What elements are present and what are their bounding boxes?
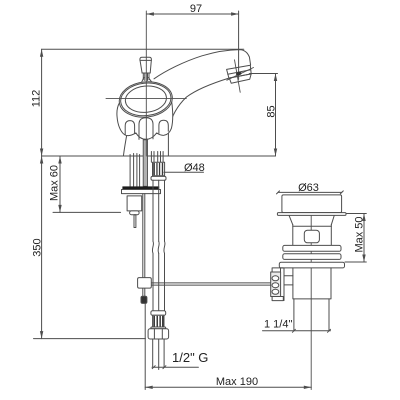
skirt arch right <box>159 120 168 133</box>
mounting nut <box>127 196 142 211</box>
right hose collar <box>151 176 166 180</box>
drain body <box>293 268 331 299</box>
faucet centerline <box>145 11 147 156</box>
tick marks 1/2G <box>152 366 166 369</box>
tick marks D63 <box>277 191 344 194</box>
pop-up rod lower <box>143 288 145 296</box>
pipe break symbol <box>152 241 165 253</box>
extension line spout outlet <box>238 11 240 79</box>
knob skirt <box>117 101 173 139</box>
drain shoulder left <box>289 216 293 225</box>
clevis bottom cap <box>272 297 283 301</box>
leader line D48 <box>164 171 204 173</box>
dimension 85 <box>274 74 277 157</box>
svg-text:350: 350 <box>32 238 44 256</box>
handle lever bottom <box>142 72 150 74</box>
rod end knob <box>141 296 147 303</box>
faucet base right edge <box>167 132 169 157</box>
right hose corrugation upper <box>153 162 165 176</box>
svg-text:1/2" G: 1/2" G <box>172 350 208 365</box>
drain tailpiece <box>294 299 329 331</box>
dimension Max 60 <box>58 156 61 212</box>
svg-text:97: 97 <box>190 3 202 15</box>
clevis slot 2 <box>272 283 279 288</box>
supply pipe <box>153 180 165 241</box>
clevis top cap <box>272 268 283 272</box>
svg-text:85: 85 <box>266 105 278 117</box>
shank tube <box>143 140 147 187</box>
knob outer ellipse <box>118 79 175 120</box>
extension line hose end <box>34 338 146 340</box>
extension line faucet top <box>42 48 244 50</box>
right hose top lines <box>151 152 163 163</box>
hex nut facets <box>154 329 162 339</box>
drain ring 3 <box>279 262 344 268</box>
handle lever cap <box>140 57 152 73</box>
dimension 112 left <box>40 49 43 156</box>
hose lower collar <box>151 311 166 316</box>
clevis slot 3 <box>272 289 279 294</box>
aerator collar <box>227 65 252 78</box>
extension line aerator <box>250 73 278 75</box>
deck line <box>42 155 276 157</box>
aerator axis mark <box>235 60 241 93</box>
mounting gasket <box>122 186 159 189</box>
svg-text:Max 50: Max 50 <box>354 216 366 252</box>
svg-text:1 1/4": 1 1/4" <box>264 319 292 331</box>
drain centerline <box>310 201 312 390</box>
drain neck divider <box>293 225 332 227</box>
drain flange lip <box>277 213 346 216</box>
drain shoulder right <box>331 216 334 225</box>
drain ring 1 <box>283 245 341 251</box>
drain knockout square <box>304 230 319 243</box>
extension line rod end <box>144 303 146 389</box>
clevis slot 1 <box>272 276 279 281</box>
pop-up rod <box>143 194 145 278</box>
clevis serrated strip <box>271 272 281 297</box>
mounting washer <box>122 190 161 194</box>
knob inner ellipse <box>124 84 168 114</box>
drain neck <box>293 225 332 246</box>
faucet base left curve <box>123 132 127 156</box>
aerator center blob <box>236 71 242 76</box>
aerator collar midline <box>228 70 251 74</box>
pipe end 1/2G <box>153 339 164 370</box>
left supply hose lines <box>130 154 140 187</box>
knob centerline <box>106 98 186 100</box>
svg-text:Max 190: Max 190 <box>216 376 258 388</box>
skirt arch center <box>139 118 153 140</box>
clevis right plate <box>281 268 285 301</box>
drain ring 2 <box>283 254 341 260</box>
dimension Max 190 <box>145 386 311 389</box>
tick marks 1 1/4 <box>292 329 330 332</box>
spout top curve <box>154 50 251 79</box>
svg-text:112: 112 <box>31 90 43 108</box>
dimension 97 top <box>146 12 238 15</box>
leader line 1/2G <box>152 366 198 368</box>
horizontal linkage rod <box>151 283 271 285</box>
handle lever band <box>140 59 152 61</box>
dimension line 1 1/4 <box>263 330 331 332</box>
aerator lower rim <box>229 74 251 83</box>
hose collar 2 <box>151 327 166 329</box>
hose corrugation lower <box>153 315 164 327</box>
knob rim ellipse <box>119 81 173 118</box>
dimension 350 left <box>40 156 43 339</box>
leader line D63 <box>278 191 342 193</box>
dimension Max 50 <box>362 214 365 263</box>
skirt arch left <box>125 121 134 135</box>
extension line washer <box>53 211 121 213</box>
supply pipe lower <box>153 253 165 310</box>
connection hex nut <box>148 329 169 339</box>
extension line flange bottom <box>346 213 366 215</box>
aerator cross mark <box>227 68 254 81</box>
threaded stud <box>134 215 136 228</box>
mounting nut step <box>130 211 140 215</box>
handle stem flare <box>142 78 152 83</box>
rod clamp block <box>138 278 152 289</box>
drain flange <box>282 195 342 213</box>
clevis link lines <box>284 276 293 285</box>
svg-text:Max 60: Max 60 <box>49 165 61 201</box>
handle stem <box>143 73 149 81</box>
spout bottom curve <box>168 78 229 131</box>
extension line ring bottom <box>345 261 366 263</box>
